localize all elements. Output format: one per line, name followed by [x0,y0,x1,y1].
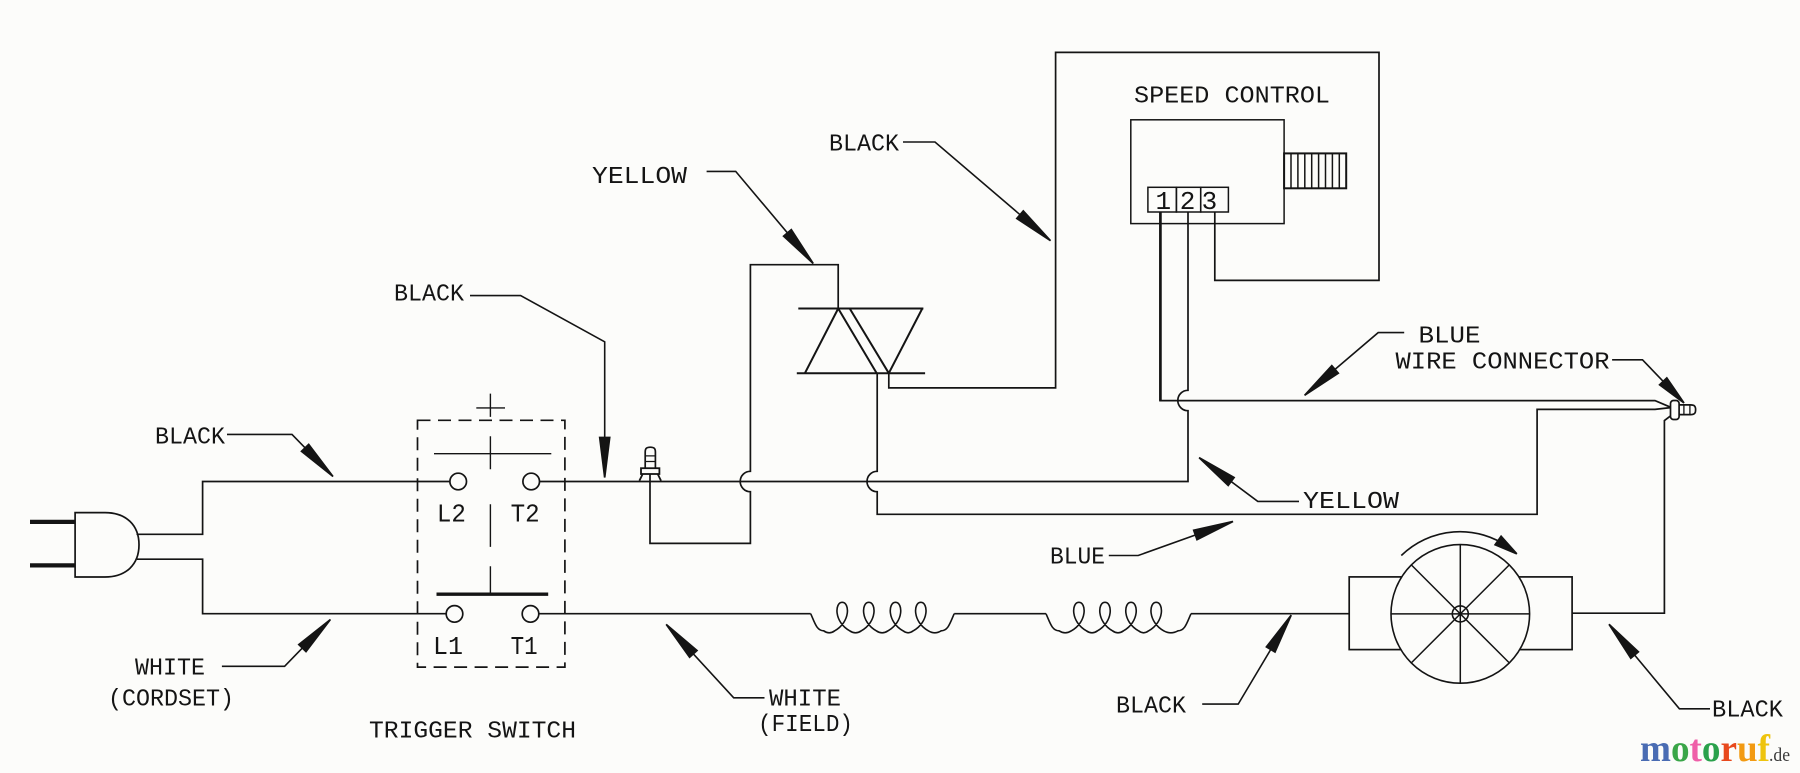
wire white field: T1 to field coil 1 [539,613,811,615]
svg-text:motoruf: motoruf [1640,728,1771,770]
wire black cordset: plug to L2 [137,482,450,535]
wire blue: triac MT to connector riser (hops over yellow wire) [867,373,1671,514]
trigger switch lower contact bar (closed) [437,593,549,596]
wire black: field coil 2 to motor [1191,613,1349,615]
terminal block 2 [1176,187,1200,212]
svg-text:(CORDSET): (CORDSET) [108,687,234,714]
svg-text:.de: .de [1769,745,1790,766]
motoruf.de watermark logo [1640,728,1790,770]
triac Q1 [797,309,925,374]
wire yellow: T2 to speed control pin 2 (with hop over blue wire) [540,212,1189,482]
trigger switch actuator centerline [476,394,505,595]
svg-text:BLACK: BLACK [394,282,465,309]
motor armature [1391,545,1530,684]
svg-text:YELLOW: YELLOW [1303,489,1400,516]
svg-text:2: 2 [1180,187,1196,217]
svg-text:BLUE: BLUE [1419,324,1481,351]
trigger switch SW1 dashed enclosure [418,420,565,667]
wire white cordset: plug to L1 [137,559,446,614]
terminal block 1 [1148,187,1177,212]
speed control module box [1131,120,1284,224]
terminal L1 [446,606,463,623]
svg-text:BLACK: BLACK [829,132,900,159]
wire between field coils [954,613,1046,615]
svg-text:WIRE CONNECTOR: WIRE CONNECTOR [1396,350,1610,377]
motor M1 housing [1349,577,1572,650]
svg-text:WHITE: WHITE [769,687,841,714]
trigger switch upper contact bar [434,453,551,455]
svg-text:SPEED CONTROL: SPEED CONTROL [1134,84,1330,111]
terminal block 3 [1201,187,1229,212]
svg-text:3: 3 [1202,187,1218,217]
wire black: triac to speed control pin 3 (routed around module) [889,52,1379,388]
terminal T1 [522,606,539,623]
svg-text:L2: L2 [437,500,466,530]
svg-text:BLUE: BLUE [1050,545,1105,572]
screw terminal (gate tap on yellow wire) [639,447,661,481]
svg-text:BLACK: BLACK [155,425,226,452]
terminal T2 [523,473,540,490]
svg-text:TRIGGER SWITCH: TRIGGER SWITCH [369,719,576,746]
svg-text:1: 1 [1155,187,1171,217]
blue wire connector [1671,401,1696,420]
field coil FLD1 [811,602,955,633]
motor rotation arrow [1401,532,1509,556]
speed control potentiometer shaft (hatched) [1284,153,1346,188]
svg-text:T2: T2 [511,500,540,530]
field coil FLD2 [1046,602,1191,633]
svg-text:BLACK: BLACK [1116,694,1187,721]
wire yellow gate: screw terminal to triac gate (hops over yellow wire) [650,265,838,544]
svg-text:(FIELD): (FIELD) [758,712,853,739]
wire blue: speed control pin 1 to wire connector [1159,212,1162,401]
terminal L2 [450,473,467,490]
svg-text:YELLOW: YELLOW [592,164,688,191]
svg-text:BLACK: BLACK [1712,698,1784,725]
svg-text:T1: T1 [511,632,538,662]
svg-text:L1: L1 [433,632,463,662]
plug P1 (cordset plug) [30,513,139,577]
wire black: connector to motor [1572,416,1670,613]
svg-text:WHITE: WHITE [135,656,205,683]
